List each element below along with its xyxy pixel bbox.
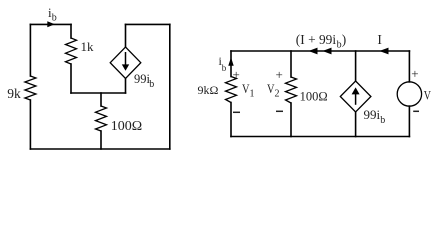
svg-text:9k: 9k [7,86,21,101]
resistor 100 ohm (vertical at x=101) [96,93,107,149]
svg-text:b: b [149,79,154,90]
svg-text:2: 2 [275,89,280,100]
svg-text:b: b [222,63,227,73]
svg-text:b: b [52,13,57,24]
svg-text:99i: 99i [364,107,381,122]
svg-text:99i: 99i [134,72,151,86]
current arrow (I+99ib) first arrowhead [309,48,318,55]
dependent current source 99ib (diamond, up arrow, x=355.6) [340,51,371,137]
resistor 9k (vertical at x=30, left side) [25,24,36,149]
svg-text:V: V [424,87,432,102]
independent voltage source V (circle, x=409.5) [397,51,421,137]
wire bottom [231,136,409,138]
resistor 100 ohm branch (x=291) [286,51,297,137]
svg-text:1k: 1k [81,39,95,54]
svg-text:+: + [233,67,240,82]
svg-text:1: 1 [250,89,255,100]
svg-text:(I + 99i: (I + 99i [296,32,337,47]
resistor 1k (vertical at x=71) [66,24,77,93]
label V source minus [413,110,419,112]
current arrow I arrowhead [380,48,389,55]
current arrow (I+99ib) second arrowhead [323,48,332,55]
wire bottom [30,148,169,150]
dependent current source 99ib (diamond, down arrow) [110,24,141,93]
wire left vertical with 9k ohm resistor [226,51,237,137]
wire middle horizontal [71,92,126,94]
svg-text:+: + [411,66,418,81]
svg-text:100Ω: 100Ω [111,119,142,134]
wire top-left segment (node top) [30,23,71,25]
svg-text:9kΩ: 9kΩ [198,83,219,97]
wire top-right segment [126,23,170,25]
current arrow i_b on top wire [47,21,55,27]
svg-text:+: + [276,67,283,82]
svg-text:100Ω: 100Ω [300,89,328,103]
wire right vertical [169,24,171,149]
label V1 minus [233,111,240,113]
current arrow ib (up) on left vertical [228,57,233,66]
svg-text:b: b [380,115,385,126]
svg-text:I: I [377,32,382,47]
svg-text:): ) [342,32,346,47]
wire top [231,50,409,52]
label V2 minus [276,110,283,112]
